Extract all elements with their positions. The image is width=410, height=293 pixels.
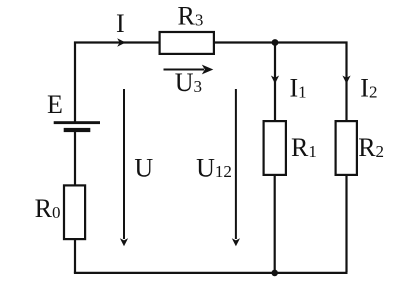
wire: middle vertical from R1 bottom to bottom junction [274, 176, 276, 273]
svg-text:R3: R3 [178, 2, 204, 31]
svg-text:I1: I1 [290, 74, 307, 103]
svg-text:R2: R2 [358, 133, 384, 162]
battery E long plate [54, 121, 100, 124]
resistor R3 body [160, 32, 214, 54]
battery E short plate [64, 128, 91, 132]
arrow: current I2 head [342, 76, 350, 84]
wire: battery bottom plate down to R0 top [74, 131, 76, 186]
resistor R1 body [264, 121, 286, 175]
node: bottom junction dot [271, 270, 278, 277]
arrow: voltage U3 under R3 [164, 65, 214, 75]
wire: R0 bottom down to bottom-left corner [74, 239, 76, 273]
svg-text:E: E [47, 90, 63, 119]
wire: left vertical from battery up and top wire to R3 left [75, 43, 160, 123]
wire: top horizontal from R3 right through junction to right corner and down to R2 top [215, 43, 347, 122]
svg-text:U12: U12 [196, 153, 232, 182]
svg-text:R1: R1 [291, 133, 317, 162]
node: top junction dot [272, 39, 279, 46]
wire: middle vertical from top junction to R1 top [274, 43, 276, 122]
resistor R0 body [64, 185, 85, 239]
arrow: current I head on top wire [117, 38, 125, 46]
svg-text:I2: I2 [360, 74, 377, 103]
svg-text:I: I [116, 9, 125, 38]
svg-text:R0: R0 [35, 194, 61, 223]
svg-text:U3: U3 [175, 68, 202, 97]
svg-text:U: U [134, 153, 153, 182]
wire: bottom horizontal from left corner to right corner [74, 272, 348, 274]
wire: right vertical from R2 bottom to bottom wire [345, 176, 347, 273]
arrow: voltage U (left, pointing down) [120, 89, 128, 246]
arrow: current I1 head [271, 76, 279, 84]
arrow: voltage U12 (middle, pointing down) [232, 89, 240, 246]
resistor R2 body [336, 121, 357, 175]
